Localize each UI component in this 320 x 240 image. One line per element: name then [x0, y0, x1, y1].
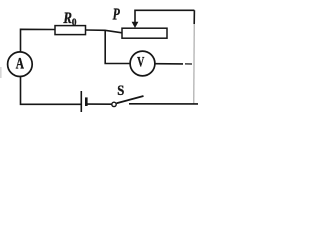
svg-text:P: P — [112, 5, 120, 24]
svg-text:V: V — [137, 55, 144, 71]
svg-text:R: R — [63, 10, 73, 27]
svg-text:0: 0 — [72, 17, 77, 29]
svg-text:A: A — [16, 56, 25, 73]
svg-text:S: S — [117, 83, 124, 99]
